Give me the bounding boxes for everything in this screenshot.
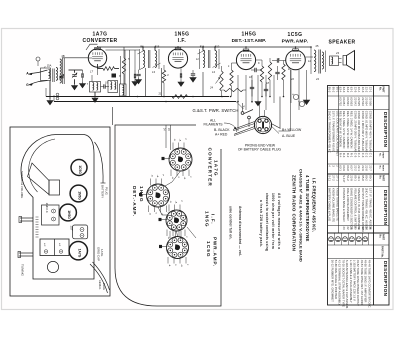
- resistor R4: [260, 66, 263, 82]
- svg-text:95-8: 95-8: [361, 175, 365, 181]
- svg-text:I.F. FREQUENCY 455 KC.: I.F. FREQUENCY 455 KC.: [312, 178, 317, 232]
- svg-text:No.: No.: [379, 176, 381, 180]
- svg-text:R-2: R-2: [346, 153, 350, 158]
- svg-text:L-104 CABLE & PLUG ASSEMBLY: L-104 CABLE & PLUG ASSEMBLY: [349, 260, 353, 303]
- feed drop: [129, 50, 131, 97]
- wire grid return: [231, 63, 233, 70]
- wire coil to ground: [49, 81, 51, 100]
- svg-text:20: 20: [353, 227, 357, 231]
- svg-text:PWR.AMP.: PWR.AMP.: [213, 237, 218, 267]
- svg-text:CHASSIS Nº 4A02 & 4A04-1½ V.-S: CHASSIS Nº 4A02 & 4A04-1½ V.-SINGLE BAND: [299, 169, 304, 262]
- svg-text:22-5: 22-5: [353, 87, 357, 93]
- wire bus A-: [46, 96, 229, 98]
- layout box 2ND IF: [42, 205, 60, 225]
- svg-text:27-1: 27-1: [335, 175, 339, 181]
- svg-text:No.: No.: [379, 153, 381, 157]
- svg-text:No.: No.: [379, 166, 381, 170]
- svg-text:BATTERY CABLE & PLUG: BATTERY CABLE & PLUG: [328, 188, 332, 221]
- svg-text:B+ YELLOW: B+ YELLOW: [282, 128, 302, 132]
- svg-text:DIAL & DRIVE ASSEMBLY: DIAL & DRIVE ASSEMBLY: [346, 188, 350, 221]
- wire filament drop: [236, 129, 238, 132]
- antenna coil shield: [41, 68, 51, 81]
- svg-text:PART: PART: [382, 87, 385, 94]
- AVC resistor: [122, 58, 125, 74]
- svg-text:49-49 TUBE 1A7G CONVERTER OSC: 49-49 TUBE 1A7G CONVERTER OSC.: [367, 260, 371, 309]
- svg-text:A- BLUE: A- BLUE: [282, 134, 296, 138]
- socket S3 1N5G: [166, 210, 187, 231]
- svg-text:22-516: 22-516: [361, 97, 365, 106]
- speaker cone: [343, 56, 347, 66]
- AVC cap: [133, 74, 135, 78]
- svg-text:1A7G: 1A7G: [92, 32, 107, 38]
- svg-text:SWITCH & VOLUME: SWITCH & VOLUME: [20, 171, 24, 198]
- svg-text:S-11: S-11: [328, 175, 332, 181]
- wire grid cap drop: [97, 46, 99, 49]
- svg-text:PART: PART: [382, 165, 385, 171]
- ground under C5: [138, 78, 140, 80]
- svg-text:17: 17: [365, 227, 369, 231]
- svg-text:S-117: S-117: [342, 175, 346, 183]
- svg-text:63-1: 63-1: [350, 87, 354, 93]
- parts table 3: [328, 233, 390, 305]
- svg-text:2ND I.F. TRANS. 455 KC. ASSEM.: 2ND I.F. TRANS. 455 KC. ASSEM.: [365, 188, 369, 231]
- svg-text:1A7G: 1A7G: [77, 249, 81, 258]
- T4 core: [318, 50, 320, 74]
- extra cap det 2: [264, 88, 268, 90]
- svg-text:95-1: 95-1: [335, 87, 339, 93]
- svg-text:1ST I.F. TRANSFORMER 455 KC: 1ST I.F. TRANSFORMER 455 KC: [331, 111, 335, 152]
- svg-text:1H5G: 1H5G: [139, 186, 144, 203]
- plug prongs: [258, 119, 261, 122]
- svg-text:No.: No.: [379, 87, 381, 91]
- svg-text:63-9: 63-9: [342, 165, 346, 171]
- oscillator coil box L3: [90, 82, 101, 93]
- svg-text:KNOB TUNING BAKELITE: KNOB TUNING BAKELITE: [335, 188, 339, 221]
- antenna coil T1 primary: [49, 70, 51, 79]
- svg-text:C-3: C-3: [361, 153, 365, 158]
- svg-text:80-1: 80-1: [368, 175, 372, 181]
- svg-text:1A7G: 1A7G: [214, 160, 219, 177]
- svg-text:19: 19: [105, 81, 108, 85]
- svg-text:BLUE: BLUE: [102, 283, 106, 290]
- svg-text:18: 18: [266, 81, 269, 85]
- tube base mini diagrams: [329, 237, 334, 242]
- layout tube 1H5G: [60, 204, 77, 221]
- svg-text:OSC. COIL & ANT. COIL ASSEMBLY: OSC. COIL & ANT. COIL ASSEMBLY: [335, 111, 339, 156]
- svg-text:36-12 RUBBER MTG. GROMMET: 36-12 RUBBER MTG. GROMMET: [330, 260, 334, 302]
- svg-text:No.: No.: [379, 235, 381, 239]
- svg-text:63-8: 63-8: [346, 165, 350, 171]
- svg-text:22-2: 22-2: [353, 165, 357, 171]
- wire plug right leads: [271, 124, 280, 129]
- svg-text:22-500: 22-500: [368, 97, 372, 106]
- arrow filaments: [224, 123, 236, 129]
- socket S2 1H5G: [147, 184, 170, 207]
- speaker rim inner arc: [29, 139, 55, 192]
- svg-text:AERIAL: AERIAL: [98, 280, 102, 290]
- layout gang capacitor: [40, 239, 69, 256]
- svg-text:54-80 DIAL SCALE & POINTER: 54-80 DIAL SCALE & POINTER: [334, 260, 338, 299]
- svg-text:COND .002 MFD MICA MOLDED: COND .002 MFD MICA MOLDED: [357, 111, 361, 152]
- svg-text:ume control full on.: ume control full on.: [229, 206, 233, 240]
- T2 trimmer arrows: [138, 50, 146, 54]
- svg-text:42-13 TERMINAL STRIP ASSEMBLY: 42-13 TERMINAL STRIP ASSEMBLY: [338, 260, 342, 306]
- svg-text:GANG CONDENSER 2 SECTION: GANG CONDENSER 2 SECTION: [350, 188, 354, 230]
- svg-text:COND .05 MFD 400 V. TUBULAR: COND .05 MFD 400 V. TUBULAR: [368, 111, 372, 152]
- wire bus B to switch: [236, 102, 244, 110]
- svg-text:23: 23: [342, 227, 346, 231]
- T3 trimmer arrows: [198, 50, 206, 54]
- svg-text:KNOB VOLUME BAKELITE: KNOB VOLUME BAKELITE: [331, 188, 335, 222]
- svg-text:C-2: C-2: [365, 153, 369, 158]
- IF transformer T3 coil B: [215, 51, 217, 68]
- screen resistor R1: [103, 67, 115, 71]
- svg-text:22: 22: [346, 227, 350, 231]
- svg-text:Antenna disconnected — vol-: Antenna disconnected — vol-: [238, 206, 242, 256]
- svg-text:DET.-AMP.: DET.-AMP.: [132, 186, 137, 217]
- svg-text:CHASSIS BASE & SHIELD: CHASSIS BASE & SHIELD: [342, 188, 346, 221]
- svg-text:2ND I.F.: 2ND I.F.: [45, 203, 49, 214]
- svg-text:22-9: 22-9: [361, 165, 365, 171]
- svg-text:COND .25 MFD 200 V. TUBULAR: COND .25 MFD 200 V. TUBULAR: [353, 111, 357, 152]
- svg-text:1000 ohm per volt meter from: 1000 ohm per volt meter from: [271, 193, 275, 249]
- svg-text:RES. 3 MEG. 1/4 W. CARBON: RES. 3 MEG. 1/4 W. CARBON: [346, 111, 350, 149]
- wires into plug top: [259, 103, 261, 117]
- svg-text:1N5G: 1N5G: [205, 211, 210, 228]
- svg-text:PART: PART: [382, 175, 385, 182]
- svg-text:S-118 ANTENNA LEAD & CLIP ASS: S-118 ANTENNA LEAD & CLIP ASSEM.: [345, 260, 349, 309]
- svg-text:VOLUME CONTROL & SWITCH: VOLUME CONTROL & SWITCH: [353, 188, 357, 228]
- svg-text:4B: 4B: [61, 54, 64, 58]
- plate feed bus: [106, 49, 140, 51]
- ground under C3: [82, 82, 84, 84]
- svg-text:⊕C: ⊕C: [43, 243, 46, 247]
- grid resistor R6: [282, 64, 285, 80]
- svg-text:63-7: 63-7: [350, 165, 354, 171]
- svg-text:OF BATTERY CABLE PLUG: OF BATTERY CABLE PLUG: [238, 147, 282, 151]
- svg-text:49-50 TUBE 1N5G I.F. AMPLIFIE: 49-50 TUBE 1N5G I.F. AMPLIFIER: [364, 260, 368, 303]
- wire top bus: [98, 46, 312, 48]
- svg-text:27-2: 27-2: [331, 175, 335, 181]
- capacitor C2 trimmer: [72, 74, 77, 76]
- wire speaker: [339, 58, 342, 60]
- dial scale ticks: [36, 217, 39, 237]
- svg-text:DESCRIPTION: DESCRIPTION: [383, 261, 388, 297]
- svg-text:16: 16: [249, 75, 252, 79]
- svg-text:A+ RED: A+ RED: [215, 132, 228, 136]
- svg-text:DESCRIPTION: DESCRIPTION: [383, 112, 388, 148]
- svg-text:CONVERTER: CONVERTER: [83, 38, 118, 44]
- svg-text:24: 24: [209, 86, 213, 90]
- tube V1 1A7G: [88, 49, 106, 67]
- svg-text:I.F.: I.F.: [178, 38, 187, 44]
- svg-text:R-3: R-3: [342, 153, 346, 158]
- svg-text:1N5G: 1N5G: [78, 191, 82, 200]
- wire grid: [283, 61, 285, 65]
- speaker cone trapezoid: [28, 163, 50, 195]
- antenna terminal: [36, 57, 40, 61]
- tube V3 1H5G: [236, 50, 255, 69]
- extra cap det 1: [250, 86, 254, 88]
- extra drop wires right: [237, 103, 239, 131]
- AVC wires: [123, 47, 125, 58]
- socket S1 1A7G: [169, 148, 192, 171]
- junction dots bottom bus: [137, 96, 139, 98]
- osc grid cap C4: [103, 84, 105, 88]
- svg-text:C-1: C-1: [368, 153, 372, 158]
- IF transformer T2 core: [147, 50, 149, 68]
- wires detector: [256, 59, 262, 61]
- svg-text:PART No.: PART No.: [381, 246, 385, 258]
- svg-text:R-1: R-1: [350, 153, 354, 158]
- svg-text:10: 10: [288, 67, 291, 71]
- svg-text:22-9: 22-9: [350, 175, 354, 181]
- svg-text:G.&S.T. PWR. SWITCH: G.&S.T. PWR. SWITCH: [192, 108, 238, 113]
- wire T3 to bus: [202, 47, 204, 51]
- svg-text:COND .01 MFD 600 V. TUBULAR: COND .01 MFD 600 V. TUBULAR: [365, 111, 369, 152]
- layout box 1ST IF: [73, 225, 88, 239]
- tuning shaft: [19, 252, 33, 254]
- wire bus riser left: [45, 88, 47, 97]
- capacitor C9: [254, 68, 256, 72]
- svg-text:G: G: [155, 213, 157, 215]
- svg-text:2ND I.F. TRANSFORMER 455 KC: 2ND I.F. TRANSFORMER 455 KC: [328, 111, 332, 153]
- svg-text:PART: PART: [382, 234, 385, 241]
- svg-text:49-1: 49-1: [357, 175, 361, 181]
- grid resistor R9: [230, 70, 233, 86]
- layout tube 1C5G: [71, 160, 87, 176]
- svg-text:21: 21: [350, 227, 354, 231]
- wire T3 bottom: [202, 72, 204, 97]
- resistor R5: [268, 62, 271, 80]
- svg-text:13: 13: [152, 70, 155, 74]
- svg-text:22-1: 22-1: [368, 87, 372, 93]
- wire osc section: [94, 92, 96, 97]
- svg-text:80-2: 80-2: [365, 175, 369, 181]
- svg-text:DET.-1ST.AMP.: DET.-1ST.AMP.: [232, 38, 267, 43]
- ground right 1: [303, 100, 309, 105]
- jack J1: [56, 93, 59, 96]
- svg-text:15A: 15A: [47, 64, 52, 68]
- svg-text:GRID CAP: GRID CAP: [97, 247, 101, 261]
- svg-text:19: 19: [357, 227, 361, 231]
- L5 riser wires: [120, 56, 122, 84]
- cathode wire: [97, 67, 99, 75]
- svg-text:1A7G: 1A7G: [100, 249, 104, 257]
- junction dots top bus: [142, 46, 144, 48]
- svg-text:95-2: 95-2: [331, 87, 335, 93]
- cap C7 and ground: [191, 73, 195, 75]
- speaker square: [49, 180, 60, 195]
- wire R2: [163, 65, 165, 70]
- wire panel edge riser: [112, 107, 114, 125]
- svg-text:1H5G: 1H5G: [241, 32, 256, 38]
- svg-text:22-2: 22-2: [365, 87, 369, 93]
- osc coil box L4: [108, 81, 118, 93]
- wire C2 net: [74, 70, 76, 73]
- ground right 2: [257, 100, 259, 102]
- cap C6 under tube: [179, 73, 181, 77]
- oscillator coil L2: [60, 59, 62, 83]
- svg-text:63-702: 63-702: [338, 97, 342, 106]
- volume shaft: [20, 217, 33, 219]
- electrolytic C12: [293, 94, 298, 99]
- svg-text:SPEAKER: SPEAKER: [329, 40, 356, 46]
- wire drops: [237, 75, 239, 103]
- antenna lead A: [29, 73, 39, 75]
- IF transformer T2 coil B: [155, 51, 157, 68]
- svg-text:+: +: [298, 99, 300, 103]
- layout tube 1A7G: [69, 242, 87, 260]
- wire R1: [97, 64, 99, 69]
- svg-text:BATTERY: BATTERY: [101, 185, 105, 198]
- antenna coil core: [52, 69, 54, 83]
- wire transformer top to bus: [310, 47, 312, 49]
- svg-text:63-504: 63-504: [346, 97, 350, 106]
- svg-text:18: 18: [361, 227, 365, 231]
- svg-text:a fresh Z28 battery pack.: a fresh Z28 battery pack.: [259, 200, 263, 247]
- svg-text:1N5G: 1N5G: [174, 32, 189, 38]
- svg-text:49-51 TUBE 1H5G DET. 1ST AUDI: 49-51 TUBE 1H5G DET. 1ST AUDIO: [360, 260, 364, 305]
- resistor R7 in bus: [172, 95, 188, 99]
- ground under V2: [180, 81, 182, 83]
- tuning capacitor C1: [59, 75, 64, 77]
- output transformer T4 primary: [314, 50, 316, 72]
- svg-text:All voltages measured with a: All voltages measured with a: [277, 193, 281, 249]
- svg-text:CONVERTER: CONVERTER: [208, 148, 213, 187]
- svg-text:1ST: 1ST: [70, 225, 74, 231]
- svg-text:1H5G: 1H5G: [67, 210, 71, 219]
- aerial cable: [90, 264, 108, 293]
- svg-text:22-504: 22-504: [365, 97, 369, 106]
- layout tube 1N5G: [70, 185, 87, 202]
- chassis outline with speaker bulge: [21, 135, 94, 280]
- resistor R8 horizontal: [224, 88, 243, 91]
- volume control R3 potentiometer: [220, 71, 223, 91]
- svg-text:24: 24: [315, 77, 319, 81]
- svg-text:63-654: 63-654: [342, 97, 346, 106]
- svg-text:1C5G: 1C5G: [206, 241, 211, 258]
- wire bus B-: [54, 101, 236, 103]
- ground under L3: [94, 97, 96, 99]
- svg-text:C-5: C-5: [353, 153, 357, 158]
- svg-text:49-52 TUBE 1C5G POWER OUTPUT: 49-52 TUBE 1C5G POWER OUTPUT: [356, 260, 360, 307]
- svg-text:22-525: 22-525: [357, 97, 361, 106]
- svg-text:4 TUBE SUPERHETERODYNE: 4 TUBE SUPERHETERODYNE: [305, 175, 310, 242]
- svg-text:RES. 2 MEG. 1/4 W. CARBON: RES. 2 MEG. 1/4 W. CARBON: [350, 111, 354, 149]
- svg-text:22-1: 22-1: [357, 165, 361, 171]
- parts table 2: [328, 174, 390, 233]
- table 3 tube symbol row cells: [334, 233, 336, 245]
- svg-text:RES. 1 MEG. 1/4 W. CARBON: RES. 1 MEG. 1/4 W. CARBON: [342, 111, 346, 149]
- output transformer T4 secondary: [322, 52, 324, 69]
- svg-text:L-103 BATTERY PACK Z28 1.5 V.: L-103 BATTERY PACK Z28 1.5 V.: [353, 260, 357, 302]
- panel wires: [165, 125, 167, 148]
- grid cap bend: [86, 44, 98, 50]
- tube V2 1N5G: [168, 49, 187, 68]
- svg-text:PWR.AMP.: PWR.AMP.: [282, 39, 309, 45]
- svg-text:22-7: 22-7: [368, 165, 372, 171]
- wire plug to panel: [220, 148, 222, 151]
- wire plate to transformer: [305, 56, 313, 58]
- svg-text:12: 12: [308, 59, 311, 63]
- svg-text:23: 23: [335, 51, 339, 55]
- svg-text:B14: B14: [200, 45, 205, 49]
- wire T2 bottom: [145, 68, 147, 97]
- svg-text:17: 17: [90, 70, 93, 74]
- svg-text:95-3: 95-3: [328, 87, 332, 93]
- wire antenna to coil: [39, 70, 48, 73]
- parts table 1: [328, 86, 390, 175]
- wire T2 to bus: [142, 47, 144, 51]
- IF transformer T2 coil A: [143, 51, 145, 68]
- wire B+ riser: [279, 97, 281, 129]
- capacitor C5: [136, 73, 140, 75]
- svg-text:63-3: 63-3: [342, 87, 346, 93]
- socket panel outline: [115, 125, 221, 306]
- IF transformer T3 coil A: [203, 51, 205, 68]
- switch S1: [241, 112, 244, 115]
- resistor R2 vertical: [162, 70, 165, 83]
- svg-text:G: G: [26, 83, 29, 87]
- svg-text:63-503: 63-503: [350, 97, 354, 106]
- molded cap: [112, 74, 117, 78]
- chassis layout box: [10, 127, 110, 296]
- svg-text:C-4: C-4: [357, 153, 361, 158]
- svg-text:ZENITH RADIO CORPORATION: ZENITH RADIO CORPORATION: [292, 175, 297, 251]
- battery plug cable: [95, 142, 104, 183]
- svg-text:54-2: 54-2: [346, 175, 350, 181]
- ground under AVC cap: [134, 80, 136, 82]
- layout dial drum: [47, 261, 58, 272]
- svg-text:DESCRIPTION: DESCRIPTION: [383, 190, 388, 226]
- svg-text:22-542: 22-542: [353, 97, 357, 106]
- svg-text:G: G: [177, 177, 179, 179]
- svg-text:B- BLACK: B- BLACK: [214, 128, 230, 132]
- osc coil box L5: [120, 84, 127, 96]
- svg-text:PLUG: PLUG: [105, 187, 109, 196]
- svg-text:TUNING: TUNING: [21, 264, 25, 276]
- capacitor C3: [81, 73, 83, 77]
- wire plug left leads: [233, 122, 255, 130]
- tube V4 1C5G: [286, 50, 306, 70]
- svg-text:78-10 SOCKET OCTAL WAFER TYPE: 78-10 SOCKET OCTAL WAFER TYPE: [341, 260, 345, 307]
- svg-text:chassis to socket contacts usi: chassis to socket contacts using: [265, 193, 269, 251]
- capacitor C10: [275, 71, 279, 73]
- svg-text:85-1: 85-1: [353, 175, 357, 181]
- svg-text:1ST I.F. TRANS. 455 KC. ASSEM.: 1ST I.F. TRANS. 455 KC. ASSEM.: [368, 188, 372, 230]
- coupling cap C11: [276, 58, 278, 62]
- svg-text:I.F.: I.F.: [211, 214, 216, 225]
- battery plug body: [254, 116, 271, 133]
- svg-text:16: 16: [368, 227, 372, 231]
- junction dots bus B: [94, 101, 96, 103]
- svg-text:22-4: 22-4: [357, 87, 361, 93]
- antenna coil T1 secondary: [56, 68, 58, 81]
- svg-text:+: +: [292, 92, 294, 96]
- speaker voice coil box: [330, 56, 339, 66]
- grid wire coil to tube: [62, 57, 88, 59]
- electrolytic C13: [299, 101, 304, 106]
- ground below antenna coil: [49, 99, 51, 101]
- svg-text:1C5G: 1C5G: [287, 32, 302, 38]
- svg-text:14: 14: [212, 70, 215, 74]
- svg-text:FILAMENTS: FILAMENTS: [203, 123, 223, 127]
- antenna lead G: [29, 82, 39, 85]
- svg-text:22-3: 22-3: [361, 87, 365, 93]
- socket S4 1C5G: [167, 237, 189, 259]
- ground under C2: [74, 84, 76, 86]
